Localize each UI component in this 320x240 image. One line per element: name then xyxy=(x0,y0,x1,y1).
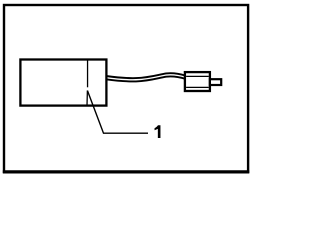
outer frame bottom edge (slightly thicker) xyxy=(3,170,250,173)
connector shield line top xyxy=(186,75,209,77)
label 1 xyxy=(155,125,161,138)
leader line to label 1 xyxy=(87,91,148,134)
cable bottom line xyxy=(106,76,186,81)
device box xyxy=(20,60,106,106)
connector tip xyxy=(210,79,221,85)
connector body xyxy=(185,72,210,91)
separator line lower segment xyxy=(86,91,88,106)
connector shield line bottom xyxy=(186,86,209,88)
separator line upper segment xyxy=(87,60,89,88)
outer frame xyxy=(4,5,248,172)
cable top line xyxy=(106,73,186,78)
